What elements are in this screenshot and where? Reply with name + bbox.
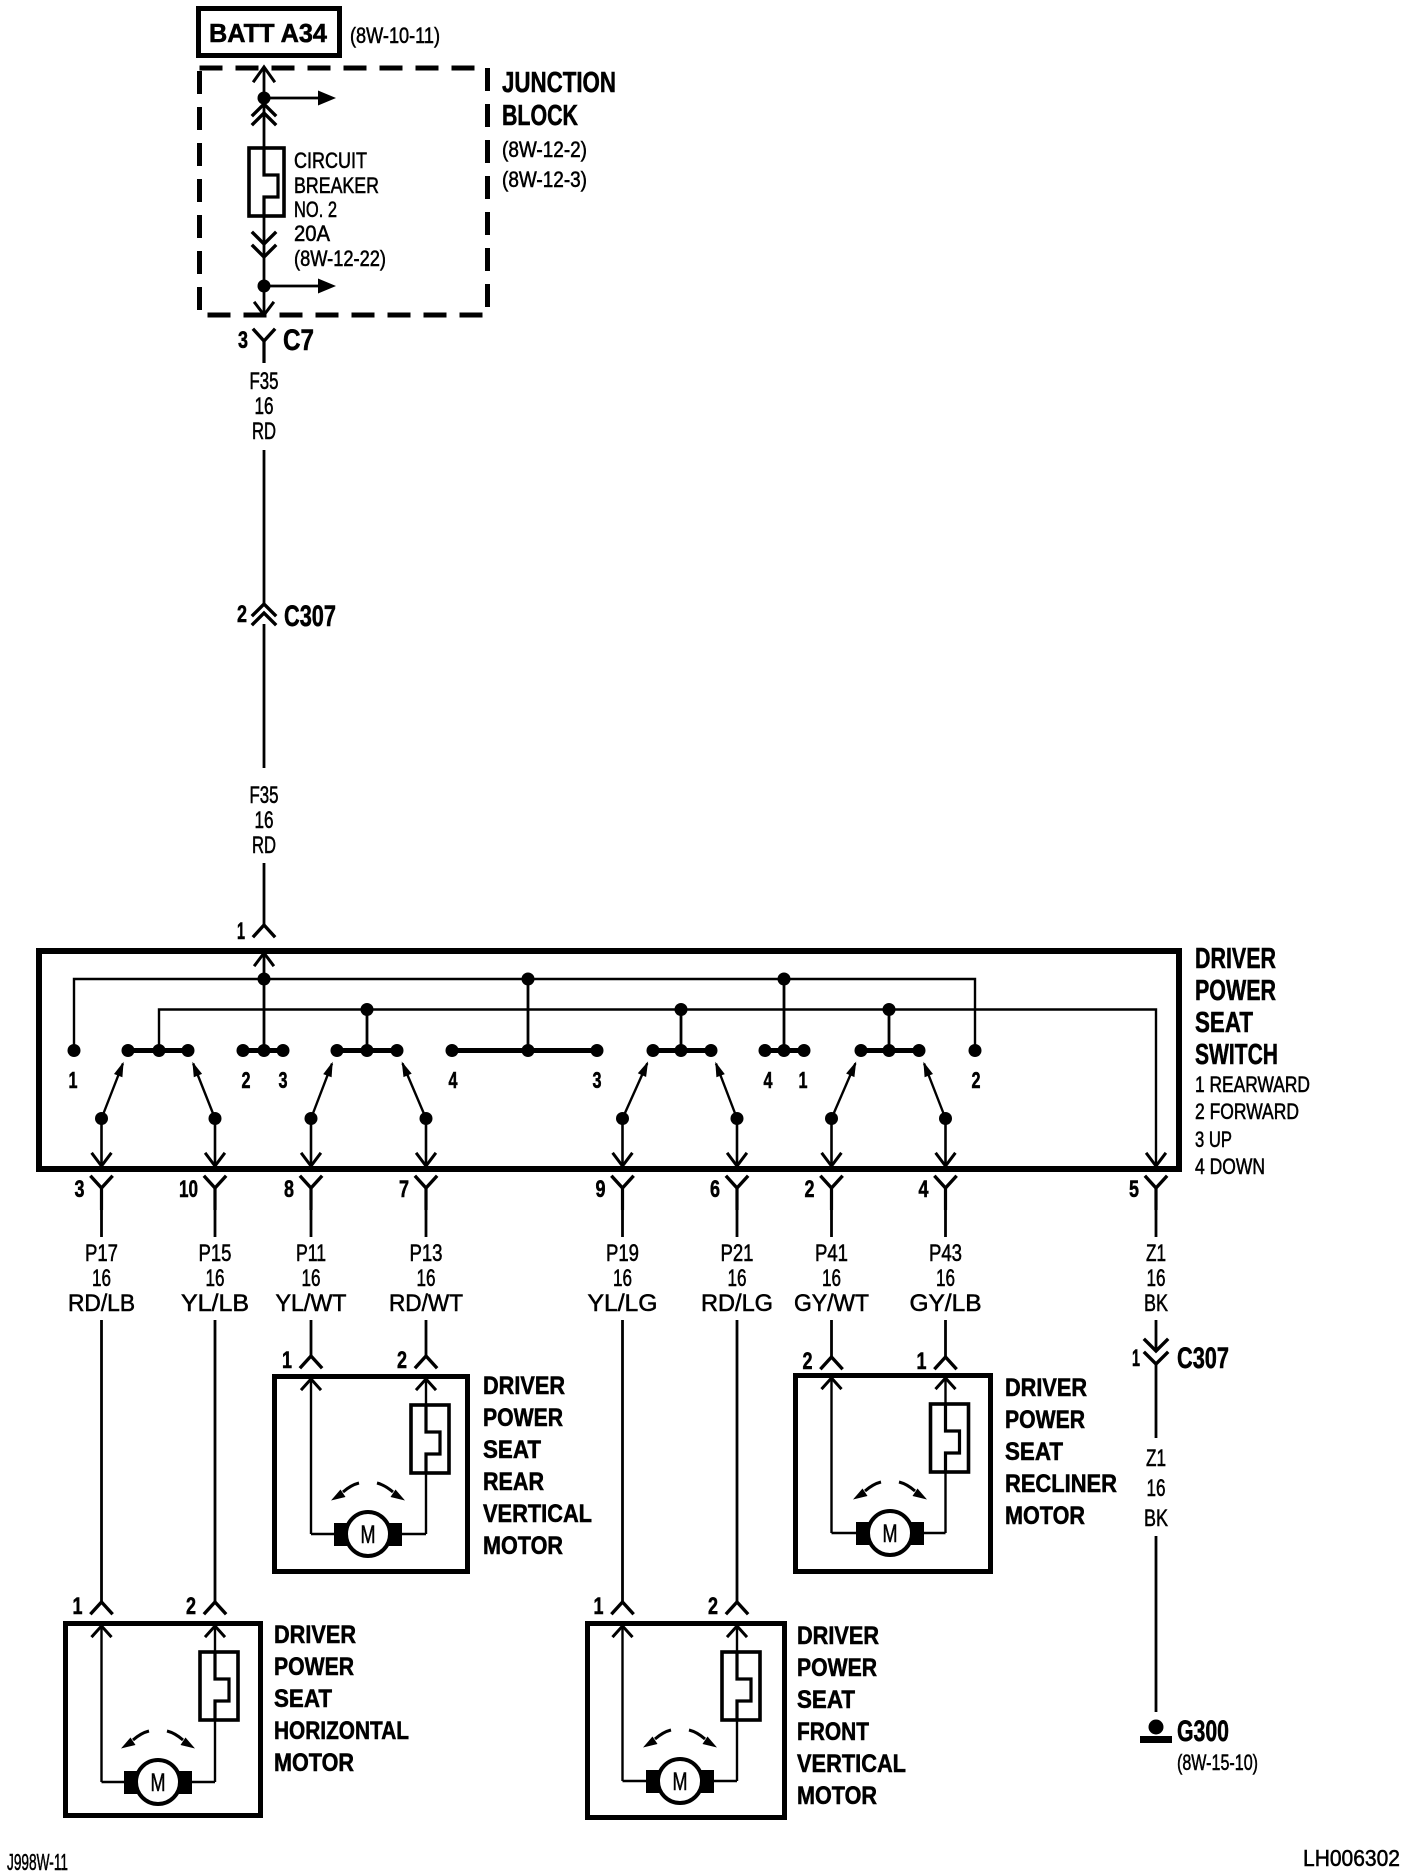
switch label [1195,943,1278,1071]
svg-text:P19: P19 [606,1240,639,1267]
horizontal motor pin 2 entry arrow [206,1626,224,1652]
svg-text:1: 1 [73,1593,83,1620]
svg-text:RD/WT: RD/WT [389,1290,463,1317]
svg-text:1: 1 [237,918,245,945]
switch output pin 3 connector [75,1176,112,1237]
junction node lower [258,280,271,293]
switch wiper to pin 10 [192,1062,224,1166]
switch feed entry arrow [255,953,273,979]
svg-text:16: 16 [302,1265,321,1292]
svg-text:FRONT: FRONT [797,1718,869,1746]
wire F35 lower run [263,624,266,768]
svg-text:F35: F35 [250,782,279,809]
recliner motor motor M [856,1511,924,1555]
sheet number J998W-11 [7,1849,68,1875]
switch section front vertical contacts [647,1044,718,1057]
switch wiper to pin 9 [614,1061,649,1166]
recliner motor internal circuit breaker [931,1404,969,1472]
svg-text:P41: P41 [815,1240,848,1267]
svg-text:YL/LB: YL/LB [181,1290,249,1317]
svg-text:1: 1 [1132,1345,1140,1372]
switch pin 1 connector [237,918,274,945]
wire label P13 16 RD/WT [389,1240,463,1317]
switch wiper to pin 7 [402,1062,435,1167]
connector C307 pin 1 [1132,1340,1229,1375]
switch section rearward-forward contacts [122,1044,195,1057]
svg-text:SEAT: SEAT [1005,1438,1063,1466]
svg-text:P13: P13 [410,1240,443,1267]
wire label F35 16 RD upper [250,368,279,445]
svg-text:(8W-10-11): (8W-10-11) [350,23,440,48]
svg-text:2: 2 [803,1348,813,1375]
wire P43 run [944,1320,947,1357]
rear vertical motor motor M [334,1512,402,1556]
svg-text:DRIVER: DRIVER [274,1621,356,1649]
wire P17 run [100,1320,103,1602]
wire below breaker [263,216,266,286]
wire P41 run [830,1320,833,1357]
svg-text:2: 2 [805,1176,815,1203]
double chevron up [253,104,275,124]
svg-text:16: 16 [1147,1265,1166,1292]
svg-text:SEAT: SEAT [797,1686,855,1714]
front vertical motor motor M [646,1759,714,1803]
recliner motor pin 1 connector [917,1348,956,1375]
rear vertical motor motor box [275,1377,468,1572]
svg-text:C7: C7 [283,324,314,357]
svg-text:P21: P21 [721,1240,754,1267]
wire label P21 16 RD/LG [701,1240,773,1317]
svg-text:REAR: REAR [483,1468,544,1496]
svg-text:MOTOR: MOTOR [797,1782,877,1810]
svg-text:16: 16 [255,807,274,834]
svg-text:3: 3 [593,1067,602,1093]
horizontal motor motor M [124,1760,192,1804]
svg-text:6: 6 [710,1176,720,1203]
svg-text:SEAT: SEAT [274,1685,332,1713]
svg-text:2: 2 [972,1067,981,1093]
svg-text:DRIVER: DRIVER [1195,943,1276,975]
svg-text:16: 16 [255,393,274,420]
connector C7 pin 3 [238,324,314,363]
front vertical motor rotation arrows [643,1730,717,1748]
wire label P43 16 GY/LB [910,1240,982,1317]
battery feed box BATT A34 [199,9,340,56]
svg-text:BATT A34: BATT A34 [209,18,328,48]
svg-text:2: 2 [397,1347,407,1374]
wire label Z1 16 BK [1144,1240,1168,1317]
switch section recliner contacts [855,1044,926,1057]
junction node upper [258,92,271,105]
svg-text:(8W-12-2): (8W-12-2) [502,137,587,162]
svg-text:16: 16 [92,1265,111,1292]
switch output pin 4 connector [919,1176,956,1237]
svg-text:RECLINER: RECLINER [1005,1470,1117,1498]
wire P13 run [425,1320,428,1356]
svg-text:1: 1 [799,1067,808,1093]
svg-text:16: 16 [417,1265,436,1292]
circuit breaker No. 2 symbol [249,148,284,216]
svg-text:P43: P43 [929,1240,962,1267]
horizontal motor pin 1 connector [73,1593,112,1620]
wire label P15 16 YL/LB [181,1240,249,1317]
svg-text:SEAT: SEAT [483,1436,541,1464]
svg-text:GY/WT: GY/WT [794,1290,869,1317]
wire F35 upper run [263,450,266,604]
svg-text:2: 2 [242,1067,251,1093]
svg-text:5: 5 [1129,1176,1139,1203]
svg-text:2: 2 [708,1593,718,1620]
svg-text:VERTICAL: VERTICAL [483,1500,592,1528]
svg-text:(8W-12-3): (8W-12-3) [502,167,587,192]
svg-text:POWER: POWER [274,1653,354,1681]
svg-text:8: 8 [284,1176,294,1203]
wire to junction block edge [263,286,266,315]
front vertical motor motor box [588,1624,785,1818]
svg-text:9: 9 [596,1176,606,1203]
svg-text:BK: BK [1144,1290,1168,1317]
svg-text:M: M [361,1521,376,1549]
wire Z1 middle run [1155,1364,1158,1438]
svg-text:1: 1 [917,1348,927,1375]
svg-text:POWER: POWER [483,1404,563,1432]
recliner motor wire breaker to motor [923,1472,946,1533]
rear vertical motor pin 1 entry arrow [302,1379,335,1534]
arrow down at junction block edge [255,303,273,315]
svg-text:BLOCK: BLOCK [502,100,578,132]
horizontal motor pin 1 entry arrow [93,1626,126,1782]
svg-text:YL/WT: YL/WT [276,1290,347,1317]
horizontal motor rotation arrows [121,1731,195,1749]
svg-text:7: 7 [399,1176,409,1203]
svg-text:DRIVER: DRIVER [1005,1374,1087,1402]
svg-text:16: 16 [1147,1475,1166,1502]
wire Z1 lower run [1155,1536,1158,1712]
junction block label [502,67,616,192]
horizontal motor motor label [274,1621,409,1777]
svg-text:16: 16 [206,1265,225,1292]
bus upper junction at terminal 3 [522,973,535,1051]
ground G300 [1140,1715,1258,1775]
svg-text:DRIVER: DRIVER [797,1622,879,1650]
bus upper junction at feed [258,973,271,1051]
horizontal motor motor box [66,1624,261,1816]
wire label P19 16 YL/LG [588,1240,658,1317]
svg-text:JUNCTION: JUNCTION [502,67,616,99]
svg-text:BREAKER: BREAKER [294,173,379,198]
svg-text:M: M [151,1769,166,1797]
recliner motor pin 2 entry arrow [823,1378,858,1533]
rear vertical motor internal circuit breaker [411,1405,449,1473]
switch output pin 2 connector [805,1176,842,1237]
svg-text:P11: P11 [296,1240,326,1267]
svg-text:4: 4 [764,1067,773,1093]
front vertical motor motor label [797,1622,906,1810]
switch output pin 8 connector [284,1176,321,1237]
sheet code LH006302 [1303,1845,1400,1871]
switch output pin 10 connector [179,1176,225,1237]
svg-text:(8W-15-10): (8W-15-10) [1177,1750,1258,1775]
svg-text:3 UP: 3 UP [1195,1127,1232,1152]
driver power seat switch box [39,951,1179,1169]
svg-text:4: 4 [449,1067,458,1093]
svg-text:1 REARWARD: 1 REARWARD [1195,1072,1310,1097]
recliner motor motor label [1005,1374,1117,1530]
svg-text:3: 3 [279,1067,288,1093]
svg-text:RD/LB: RD/LB [68,1290,135,1317]
svg-text:(8W-12-22): (8W-12-22) [294,246,386,271]
recliner motor rotation arrows [853,1482,927,1500]
reference (8W-10-11) [350,23,440,48]
front vertical motor pin 1 connector [594,1593,633,1620]
rear vertical motor motor label [483,1372,592,1560]
svg-text:10: 10 [179,1176,198,1203]
bus upper junction at terminal 1 [778,973,791,1051]
switch terminals 4 3 [446,1044,604,1093]
bus lower junction a [361,1003,374,1051]
rear vertical motor pin 2 entry arrow [417,1379,435,1405]
svg-text:16: 16 [613,1265,632,1292]
svg-text:HORIZONTAL: HORIZONTAL [274,1717,409,1745]
recliner motor motor box [796,1376,991,1572]
svg-text:SWITCH: SWITCH [1195,1039,1278,1071]
switch terminal 1 [68,1044,81,1093]
rear vertical motor pin 2 connector [397,1347,436,1374]
rear vertical motor pin 1 connector [282,1347,321,1374]
wire Z1 upper run [1155,1320,1158,1351]
svg-text:GY/LB: GY/LB [910,1290,982,1317]
svg-text:2: 2 [186,1593,196,1620]
switch terminals 2 3 [237,1044,290,1093]
svg-text:2 FORWARD: 2 FORWARD [1195,1099,1299,1124]
svg-text:16: 16 [728,1265,747,1292]
svg-text:G300: G300 [1177,1715,1229,1748]
junction block dashed boundary [200,68,488,315]
svg-text:C307: C307 [284,600,336,633]
svg-text:RD/LG: RD/LG [701,1290,773,1317]
svg-text:BK: BK [1144,1505,1168,1532]
wire label P41 16 GY/WT [794,1240,869,1317]
front vertical motor wire breaker to motor [713,1720,737,1781]
svg-text:P15: P15 [199,1240,232,1267]
svg-text:VERTICAL: VERTICAL [797,1750,906,1778]
svg-text:4 DOWN: 4 DOWN [1195,1154,1265,1179]
switch position legend [1195,1072,1310,1179]
svg-text:1: 1 [282,1347,292,1374]
wire label F35 16 RD lower [250,782,279,859]
connector C307 pin 2 [237,600,336,633]
wire BATT feed upper [263,67,266,148]
svg-text:RD: RD [252,418,276,445]
switch terminal 2 [969,1044,982,1093]
svg-text:M: M [673,1768,688,1796]
switch wiper to pin 3 [93,1062,124,1166]
svg-text:SEAT: SEAT [1195,1007,1253,1039]
svg-text:1: 1 [69,1067,78,1093]
front vertical motor internal circuit breaker [722,1652,760,1720]
recliner motor pin 2 connector [803,1348,842,1375]
wire label Z1 16 BK [1144,1445,1168,1532]
horizontal motor pin 2 connector [186,1593,225,1620]
wire label P11 16 YL/WT [276,1240,347,1317]
svg-text:POWER: POWER [1005,1406,1085,1434]
wire P21 run [736,1320,739,1602]
svg-text:Z1: Z1 [1146,1445,1166,1472]
switch output pin 7 connector [399,1176,436,1237]
svg-text:DRIVER: DRIVER [483,1372,565,1400]
svg-text:P17: P17 [85,1240,118,1267]
rear vertical motor wire breaker to motor [401,1473,426,1534]
circuit breaker label [294,148,386,271]
wire P11 run [310,1320,313,1356]
branch arrow right upper [264,91,336,106]
switch section rear vertical contacts [331,1044,404,1057]
svg-text:POWER: POWER [797,1654,877,1682]
switch output pin 6 connector [710,1176,747,1237]
svg-text:4: 4 [919,1176,929,1203]
front vertical motor pin 2 connector [708,1593,747,1620]
recliner motor pin 1 entry arrow [937,1378,955,1404]
wire to switch pin 1 [263,863,266,925]
svg-text:2: 2 [237,601,247,628]
svg-text:3: 3 [75,1176,85,1203]
wire P15 run [214,1320,217,1602]
arrow up to BATT A34 [254,67,274,81]
bus lower junction c [883,1003,896,1051]
svg-text:POWER: POWER [1195,975,1276,1007]
front vertical motor pin 1 entry arrow [614,1626,648,1781]
svg-text:YL/LG: YL/LG [588,1290,658,1317]
rear vertical motor rotation arrows [331,1483,405,1501]
svg-text:CIRCUIT: CIRCUIT [294,148,367,173]
svg-text:Z1: Z1 [1146,1240,1166,1267]
svg-text:C307: C307 [1177,1342,1229,1375]
svg-text:3: 3 [238,327,248,354]
svg-text:MOTOR: MOTOR [274,1749,354,1777]
switch wiper to pin 2 [823,1062,857,1167]
switch terminals 4 1 [759,1044,811,1093]
svg-text:J998W-11: J998W-11 [7,1849,68,1875]
svg-text:MOTOR: MOTOR [1005,1502,1085,1530]
wire P19 run [621,1320,624,1602]
svg-text:20A: 20A [294,221,330,246]
double chevron down below breaker [253,233,275,257]
switch wiper to pin 8 [302,1062,333,1166]
svg-text:NO. 2: NO. 2 [294,197,337,222]
svg-text:F35: F35 [250,368,279,395]
bus wire lower [159,1010,1156,1167]
svg-text:16: 16 [936,1265,955,1292]
branch arrow right lower [264,279,336,294]
horizontal motor internal circuit breaker [200,1652,238,1720]
svg-text:M: M [883,1520,898,1548]
wire label P17 16 RD/LB [68,1240,135,1317]
bus lower junction b [675,1003,688,1051]
front vertical motor pin 2 entry arrow [728,1626,746,1652]
svg-text:LH006302: LH006302 [1303,1845,1400,1871]
horizontal motor wire breaker to motor [191,1720,215,1782]
bus wire upper [74,979,975,1051]
switch output pin 5 connector [1129,1176,1166,1237]
svg-text:RD: RD [252,832,276,859]
bus lower output arrow pin 5 [1147,1154,1165,1166]
svg-text:1: 1 [594,1593,604,1620]
svg-text:16: 16 [822,1265,841,1292]
svg-text:MOTOR: MOTOR [483,1532,563,1560]
switch wiper to pin 4 [923,1062,954,1166]
switch output pin 9 connector [596,1176,633,1237]
switch wiper to pin 6 [715,1062,746,1166]
